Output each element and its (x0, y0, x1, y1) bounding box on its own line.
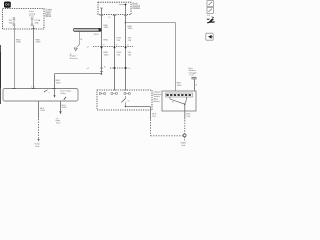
svg-text:1840: 1840 (104, 27, 110, 29)
svg-text:x: x (49, 92, 50, 94)
svg-text:1840: 1840 (56, 82, 62, 84)
svg-text:30A: 30A (35, 21, 39, 24)
svg-text:1840: 1840 (36, 42, 42, 44)
svg-text:1450: 1450 (40, 110, 46, 112)
svg-text:30A: 30A (9, 21, 13, 24)
svg-text:1840: 1840 (177, 85, 183, 87)
svg-text:on: on (128, 100, 130, 102)
svg-text:RED: RED (104, 40, 109, 42)
svg-text:1840: 1840 (16, 42, 22, 44)
svg-text:Harness: Harness (70, 57, 78, 60)
svg-text:4 C2: 4 C2 (31, 87, 35, 89)
svg-text:Grid: Grid (190, 75, 194, 77)
svg-text:Fuse: Fuse (29, 16, 35, 18)
svg-text:S210: S210 (94, 34, 100, 36)
svg-text:1840: 1840 (128, 28, 134, 30)
svg-text:Relay: Relay (61, 93, 66, 95)
svg-text:Harn: Harn (56, 123, 60, 125)
svg-text:Block: Block (46, 16, 52, 18)
svg-text:1840: 1840 (104, 54, 110, 56)
svg-text:2050: 2050 (62, 107, 68, 109)
svg-text:(Rear): (Rear) (154, 100, 160, 103)
svg-text:Module: Module (133, 8, 141, 10)
